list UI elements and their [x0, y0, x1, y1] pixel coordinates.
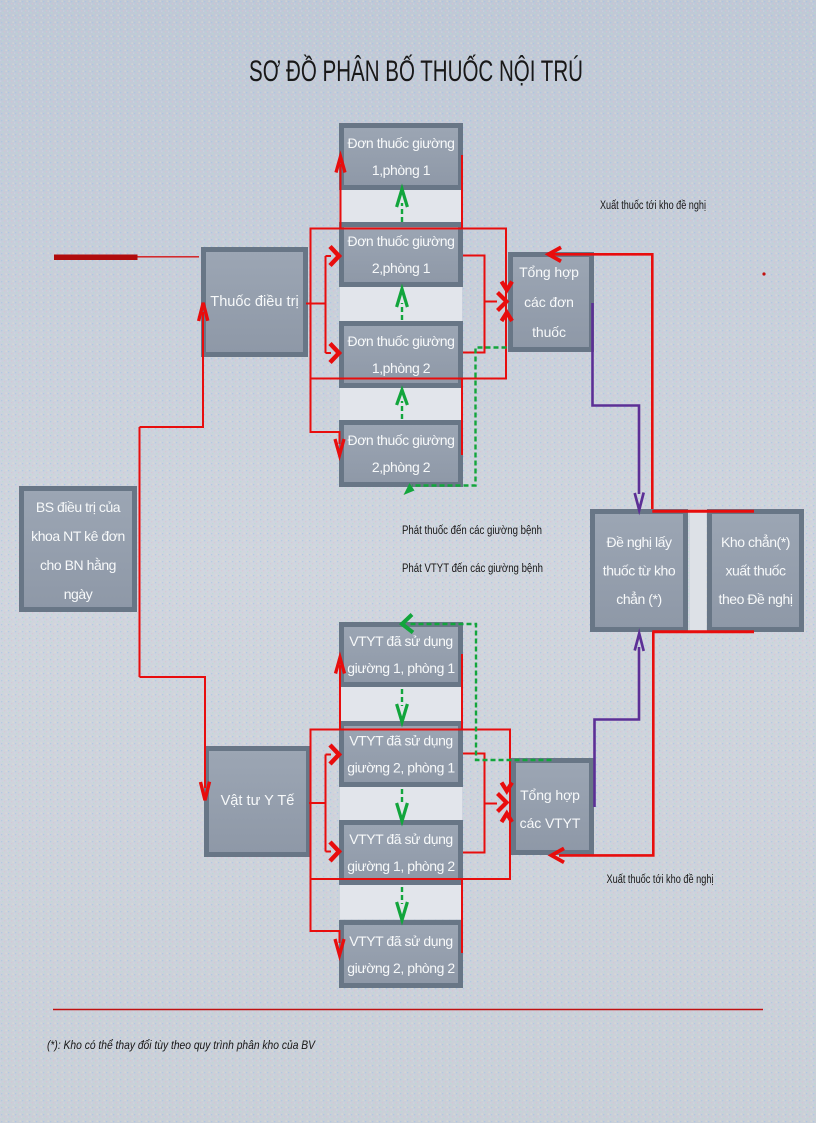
svg-text:VTYT đã sử dụng: VTYT đã sử dụng [349, 733, 453, 749]
svg-text:cho BN hằng: cho BN hằng [40, 557, 116, 573]
light band gap D3-D4 [340, 388, 462, 420]
svg-text:VTYT đã sử dụng: VTYT đã sử dụng [349, 633, 453, 649]
wire red: stub to D3 [326, 352, 332, 354]
wire red: V4 right link [461, 879, 463, 953]
arrow green down into V4 [397, 902, 408, 920]
wire purple: Tổng hợp VTYT to Đề nghị box [595, 647, 640, 807]
arrow red X into Tổng hợp các VTYT [498, 783, 513, 823]
box V4: VTYT đã sử dụng giường 2, phòng 2 [342, 923, 461, 986]
arrow green left into V1 [402, 615, 413, 633]
box Tổng hợp các VTYT [514, 761, 592, 853]
arrow red up into V1 [336, 658, 345, 674]
svg-text:chẳn (*): chẳn (*) [616, 590, 661, 607]
arrow red left into Tổng hợp VTYT [552, 848, 565, 862]
svg-text:2,phòng 1: 2,phòng 1 [372, 260, 431, 276]
arrow red left into Tổng hợp đơn thuốc [549, 247, 562, 261]
arrow purple down into Đề nghị box [635, 493, 644, 511]
box Thuốc điều trị [204, 250, 306, 355]
box V3: VTYT đã sử dụng giường 1, phòng 2 [342, 823, 461, 883]
svg-text:BS điều trị của: BS điều trị của [36, 499, 121, 515]
box D2: Đơn thuốc giường 2,phòng 1 [342, 225, 461, 285]
wire red: overlay on bottoms of Đề nghị / Kho chẳn boxes [652, 630, 754, 633]
light band gap V2-V3 [340, 787, 462, 820]
box Kho chẳn(*) xuất thuốc theo Đề nghị [710, 512, 802, 630]
wire red: BS to Vật tư Y Tế (down) [140, 677, 206, 788]
svg-text:VTYT đã sử dụng: VTYT đã sử dụng [349, 933, 453, 949]
wire red: splitter bracket (lower) [325, 755, 327, 852]
arrow red right into V3 [330, 842, 339, 861]
svg-text:2,phòng 2: 2,phòng 2 [372, 459, 431, 475]
wire red: stub to V3 [326, 851, 332, 853]
wire red: Vật tư Y Tế to splitter [309, 802, 326, 804]
arrow green up into D3 [397, 390, 408, 405]
svg-text:(*): Kho có thể thay đổi tùy t: (*): Kho có thể thay đổi tùy theo quy tr… [47, 1038, 316, 1052]
svg-text:ngày: ngày [64, 586, 93, 602]
arrow red X into Tổng hợp các đơn thuốc [498, 282, 513, 322]
wire red: D4 right link [461, 379, 463, 456]
wire red: V1 right link [461, 654, 463, 730]
svg-text:giường 1, phòng 1: giường 1, phòng 1 [347, 660, 455, 676]
arrow red down into Vật tư Y Tế [201, 782, 210, 801]
svg-text:thuốc từ kho: thuốc từ kho [603, 563, 676, 579]
box Tổng hợp các đơn thuốc [511, 255, 592, 350]
arrow red up into D1 [336, 157, 345, 173]
svg-text:các đơn: các đơn [524, 294, 574, 310]
svg-text:Phát VTYT đến các giường bệnh: Phát VTYT đến các giường bệnh [402, 563, 543, 575]
svg-text:SƠ ĐỒ PHÂN BỐ THUỐC NỘI TRÚ: SƠ ĐỒ PHÂN BỐ THUỐC NỘI TRÚ [249, 54, 583, 88]
svg-text:Đơn thuốc giường: Đơn thuốc giường [348, 135, 455, 151]
svg-text:Vật tư Y Tế: Vật tư Y Tế [221, 793, 295, 809]
svg-text:Tổng hợp: Tổng hợp [520, 787, 580, 803]
svg-text:Đơn thuốc giường: Đơn thuốc giường [348, 333, 455, 349]
box BS điều trị của khoa NT kê đơn cho BN hằng ngày [22, 489, 135, 610]
wire green dashed: V2 down to V3 [401, 789, 403, 805]
box Vật tư Y Tế [207, 749, 309, 855]
arrow green down-left at D4 [404, 483, 415, 495]
svg-text:thuốc: thuốc [532, 324, 566, 340]
arrow red right into V2 [330, 745, 339, 764]
wire green dashed: D4 up to D3 [401, 401, 403, 419]
box V1: VTYT đã sử dụng giường 1, phòng 1 [342, 625, 461, 685]
wire red: stub to V2 [326, 754, 332, 756]
svg-text:giường 2, phòng 2: giường 2, phòng 2 [347, 960, 455, 976]
svg-text:giường 1, phòng 2: giường 1, phòng 2 [347, 858, 455, 874]
arrow green up into D2 [397, 289, 408, 307]
wire red: branch up to D1 [340, 164, 342, 229]
svg-text:Đề nghị lấy: Đề nghị lấy [606, 534, 672, 550]
wire red: Thuốc điều trị to splitter [306, 303, 326, 305]
arrow green up into D1 [397, 189, 408, 207]
svg-text:các VTYT: các VTYT [520, 815, 581, 831]
arrow red right into D2 [330, 247, 339, 266]
wire red: stub to D2 [326, 255, 332, 257]
wire red: right merge bracket (lower) [463, 754, 497, 853]
wire green dashed: V3 down to V4 [401, 887, 403, 904]
light band gap V3-V4 [340, 885, 462, 919]
light band gap D1-D2 [340, 190, 462, 222]
wire red: collector rectangle (lower) [311, 730, 511, 880]
wire red: branch down to V4 [311, 879, 340, 943]
light gap between Đề nghị and Kho chẳn boxes [690, 511, 706, 630]
box D1: Đơn thuốc giường 1,phòng 1 [342, 126, 461, 188]
wire green dashed: Tổng hợp VTYT to V1 [410, 624, 552, 760]
svg-text:theo Đề nghị: theo Đề nghị [719, 591, 793, 607]
svg-text:Đơn thuốc giường: Đơn thuốc giường [348, 233, 455, 249]
footnote separator line [53, 1009, 763, 1011]
light band gap D2-D3 [340, 287, 462, 321]
wire green dashed: D3 up to D2 [401, 303, 403, 320]
arrow red down into V4 [335, 939, 344, 955]
wire red: BS to Thuốc điều trị (up) [140, 312, 204, 427]
svg-text:giường 2, phòng 1: giường 2, phòng 1 [347, 760, 455, 776]
svg-text:1,phòng 2: 1,phòng 2 [372, 360, 431, 376]
thick dark red bar top-left [54, 255, 138, 261]
svg-text:VTYT đã sử dụng: VTYT đã sử dụng [349, 831, 453, 847]
arrow green down into V3 [397, 803, 408, 821]
svg-text:Thuốc điều trị: Thuốc điều trị [210, 294, 298, 310]
svg-text:Xuất thuốc tới kho đề nghị: Xuất thuốc tới kho đề nghị [600, 200, 706, 212]
arrow red up into Thuốc điều trị [199, 303, 208, 321]
wire red: Kho chẳn to Tổng hợp đơn thuốc (top route) [549, 254, 652, 509]
wire red: D1 right link [461, 155, 463, 229]
light band gap V1-V2 [340, 687, 462, 721]
box V2: VTYT đã sử dụng giường 2, phòng 1 [342, 724, 461, 785]
arrow red right into D3 [330, 344, 339, 363]
svg-text:1,phòng 1: 1,phòng 1 [372, 162, 431, 178]
arrow purple up into Đề nghị box bottom [635, 634, 644, 652]
wire green dashed: V1 down to V2 [401, 689, 403, 706]
wire red: BS box right edge riser [139, 427, 141, 677]
arrow red down into D4 [335, 439, 344, 455]
wire red: right merge bracket (upper) [463, 256, 497, 353]
box D4: Đơn thuốc giường 2,phòng 2 [342, 423, 461, 485]
svg-text:khoa NT kê đơn: khoa NT kê đơn [31, 528, 125, 544]
arrow green down into V2 [397, 704, 408, 722]
box Đề nghị lấy thuốc từ kho chẳn (*) [593, 512, 686, 630]
wire green dashed: Tổng hợp đơn thuốc to D4 [412, 348, 507, 486]
svg-text:Tổng hợp: Tổng hợp [519, 264, 579, 280]
wire red: overlay on tops of Đề nghị / Kho chẳn boxes [652, 510, 754, 513]
svg-text:Kho chẳn(*): Kho chẳn(*) [721, 533, 790, 550]
svg-text:Xuất thuốc tới kho đề nghị: Xuất thuốc tới kho đề nghị [607, 874, 714, 886]
svg-text:Đơn thuốc giường: Đơn thuốc giường [348, 432, 455, 448]
svg-text:xuất thuốc: xuất thuốc [725, 563, 786, 579]
wire red: branch down to D4 [311, 379, 340, 445]
wire red: Kho chẳn to Tổng hợp VTYT (bottom route) [559, 632, 653, 856]
red dot artifact [762, 272, 765, 275]
wire red: collector rectangle (upper) [311, 229, 507, 379]
wire red: splitter bracket (upper) [325, 256, 327, 353]
wire purple: Tổng hợp đơn thuốc to Đề nghị box [593, 303, 640, 494]
box D3: Đơn thuốc giường 1,phòng 2 [342, 324, 461, 386]
wire green dashed: D2 up to D1 [401, 203, 403, 222]
svg-text:Phát thuốc đến các giường bệnh: Phát thuốc đến các giường bệnh [402, 525, 542, 537]
wire red: branch up to V1 [339, 665, 341, 730]
thin red line continuing bar [138, 256, 200, 258]
